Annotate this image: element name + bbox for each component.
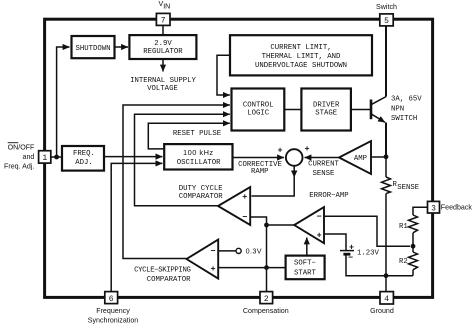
svg-text:AMP: AMP <box>354 155 367 163</box>
shutdown box U-SD <box>72 36 115 58</box>
svg-text:−: − <box>317 212 322 222</box>
node CORRECTIVE RAMP label <box>238 161 282 176</box>
svg-text:3A, 65V: 3A, 65V <box>391 96 422 104</box>
wire up to shutdown <box>57 47 70 157</box>
duty cycle comparator triangle <box>218 187 250 225</box>
node emitter junction dot <box>384 154 389 159</box>
wire error out down to cycle-skip plus <box>266 225 268 268</box>
pin 6 <box>105 292 118 304</box>
pin 5 <box>380 14 393 26</box>
wire current limit to control logic <box>217 55 230 95</box>
node ground junction dot <box>384 273 389 278</box>
freq adj box <box>62 146 104 171</box>
svg-text:ERROR−AMP: ERROR−AMP <box>309 192 348 200</box>
wire duty-cycle output to control logic <box>135 114 230 206</box>
svg-text:Switch: Switch <box>376 3 397 11</box>
svg-text:THERMAL LIMIT, AND: THERMAL LIMIT, AND <box>262 53 341 61</box>
wire error amp plus to reference <box>324 234 346 250</box>
svg-text:CYCLE−SKIPPING: CYCLE−SKIPPING <box>134 267 190 275</box>
resistor R2 <box>409 252 418 270</box>
pin 7 <box>156 13 170 25</box>
svg-text:Synchronization: Synchronization <box>88 316 139 324</box>
amp triangle <box>339 141 371 174</box>
node junction dot pin1 <box>54 155 59 160</box>
svg-text:2: 2 <box>264 295 269 304</box>
control logic box <box>232 89 285 131</box>
node divider junction dot <box>411 244 416 249</box>
svg-text:1.23V: 1.23V <box>357 249 380 257</box>
wire soft-start up arrow to error amp <box>306 238 308 256</box>
svg-text:1: 1 <box>42 154 47 163</box>
node INTERNAL SUPPLY VOLTAGE label <box>130 77 196 93</box>
svg-text:5: 5 <box>384 17 389 26</box>
IC boundary border <box>45 19 433 297</box>
wire battery to ground rail <box>346 254 413 276</box>
svg-text:CONTROL: CONTROL <box>243 101 274 109</box>
svg-text:OSCILLATOR: OSCILLATOR <box>177 159 221 167</box>
driver stage box <box>301 89 351 131</box>
wire freq adj to oscillator <box>104 156 162 158</box>
node CYCLE-SKIPPING COMPARATOR label <box>134 267 191 285</box>
svg-text:and: and <box>23 153 35 161</box>
wire amp output to summing node <box>305 157 340 159</box>
wire pin1 to freq adj with junction <box>50 156 62 158</box>
wire control logic to driver <box>284 109 301 111</box>
svg-text:+: + <box>317 231 322 241</box>
svg-text:CURRENT: CURRENT <box>308 160 339 168</box>
wire error amp minus to feedback divider <box>324 216 410 246</box>
pin 4 <box>380 292 393 304</box>
wire to soft-start input <box>267 267 286 269</box>
svg-text:0.3V: 0.3V <box>246 247 262 256</box>
wire oscillator corrective ramp to summing node <box>233 157 285 159</box>
svg-text:CURRENT LIMIT,: CURRENT LIMIT, <box>270 44 331 52</box>
svg-text:FREQ.: FREQ. <box>73 150 95 158</box>
svg-text:COMPARATOR: COMPARATOR <box>179 193 223 201</box>
svg-text:REGULATOR: REGULATOR <box>143 48 183 56</box>
wire pin7 to regulator <box>162 25 164 35</box>
wire ground dot to pin 4 <box>385 276 387 292</box>
wire shutdown to regulator <box>115 46 129 48</box>
svg-text:IN: IN <box>163 3 170 11</box>
svg-text:VOLTAGE: VOLTAGE <box>147 85 178 93</box>
svg-text:2.9V: 2.9V <box>154 40 172 48</box>
svg-text:+: + <box>210 264 215 274</box>
svg-text:100 kHz: 100 kHz <box>183 148 214 157</box>
node cycle-skip plus junction dot <box>264 265 269 270</box>
svg-text:LOGIC: LOGIC <box>247 110 270 118</box>
wire cycle-skip minus to 0.3V <box>218 250 236 252</box>
svg-text:−: − <box>242 213 247 223</box>
svg-text:RAMP: RAMP <box>251 168 269 176</box>
transistor Q1 3A 65V NPN switch <box>351 26 386 157</box>
svg-text:+: + <box>242 192 247 202</box>
node RSENSE label <box>393 181 420 192</box>
wire pin6 to oscillator <box>111 163 162 291</box>
summing junction circle <box>286 149 303 166</box>
wire pin 3 to divider <box>413 207 428 215</box>
svg-text:4: 4 <box>384 295 389 304</box>
svg-text:Frequency: Frequency <box>96 307 130 315</box>
wire summing node down to duty cycle comparator <box>252 166 295 196</box>
wire R1 to junction <box>412 233 414 252</box>
node CURRENT SENSE label <box>308 160 339 178</box>
svg-text:DUTY CYCLE: DUTY CYCLE <box>179 185 223 193</box>
cycle-skipping comparator triangle <box>187 240 219 279</box>
svg-text:START: START <box>294 269 317 277</box>
svg-text:NPN: NPN <box>391 105 404 113</box>
svg-text:ADJ.: ADJ. <box>75 159 93 167</box>
svg-text:Feedback: Feedback <box>441 204 473 212</box>
svg-text:SENSE: SENSE <box>313 170 335 178</box>
wire error amp output to node <box>267 224 295 226</box>
svg-text:COMPARATOR: COMPARATOR <box>147 276 191 284</box>
error amp triangle <box>294 207 324 243</box>
svg-text:+: + <box>304 144 309 154</box>
svg-text:STAGE: STAGE <box>315 110 337 118</box>
svg-text:R1: R1 <box>399 223 408 231</box>
soft-start box <box>286 256 325 280</box>
svg-text:−: − <box>348 253 353 263</box>
node ON/OFF and Freq. Adj. label <box>4 143 35 171</box>
pin 2 <box>260 292 273 304</box>
battery reference 1.23V <box>340 242 354 263</box>
svg-text:+: + <box>277 146 282 156</box>
oscillator box 100kHz <box>164 144 232 169</box>
node DUTY CYCLE COMPARATOR label <box>179 185 223 201</box>
svg-text:RESET PULSE: RESET PULSE <box>173 130 221 138</box>
svg-text:Compensation: Compensation <box>243 307 289 315</box>
svg-text:R2: R2 <box>399 258 408 266</box>
svg-text:3: 3 <box>431 204 436 213</box>
wire down to pin 2 <box>266 268 268 292</box>
svg-text:UNDERVOLTAGE SHUTDOWN: UNDERVOLTAGE SHUTDOWN <box>255 62 347 70</box>
svg-text:ON/OFF: ON/OFF <box>8 143 35 151</box>
svg-text:Freq. Adj.: Freq. Adj. <box>4 163 34 171</box>
resistor R1 <box>409 215 418 233</box>
svg-text:SHUTDOWN: SHUTDOWN <box>75 45 110 53</box>
wire cycle-skip output to control logic <box>123 105 230 259</box>
pin 3 <box>428 201 440 213</box>
svg-text:DRIVER: DRIVER <box>313 101 340 109</box>
wire reset pulse oscillator to control logic <box>148 123 230 149</box>
svg-text:6: 6 <box>109 295 114 304</box>
svg-text:INTERNAL SUPPLY: INTERNAL SUPPLY <box>130 77 196 85</box>
wire internal supply arrow <box>162 59 164 72</box>
resistor RSENSE <box>382 157 391 276</box>
svg-text:7: 7 <box>161 16 166 25</box>
wire duty minus input from error amp node <box>250 217 266 225</box>
node 3A 65V NPN SWITCH label <box>391 96 422 124</box>
current limit box <box>230 35 372 75</box>
node Frequency Synchronization label <box>88 307 139 324</box>
wire to cycle-skip plus input <box>218 267 267 269</box>
svg-text:SOFT−: SOFT− <box>294 260 316 268</box>
svg-text:−: − <box>210 247 215 257</box>
svg-text:SWITCH: SWITCH <box>391 115 417 123</box>
node error amp output dot <box>264 223 269 228</box>
wire amp input from emitter node <box>371 156 386 158</box>
regulator box 2.9V <box>129 35 196 59</box>
svg-text:+: + <box>349 242 354 252</box>
svg-text:SENSE: SENSE <box>397 184 419 192</box>
node 0.3V open circle <box>236 248 241 253</box>
svg-text:Ground: Ground <box>370 307 394 315</box>
wire R2 to ground rail <box>412 270 414 276</box>
pin 1 <box>39 151 51 163</box>
